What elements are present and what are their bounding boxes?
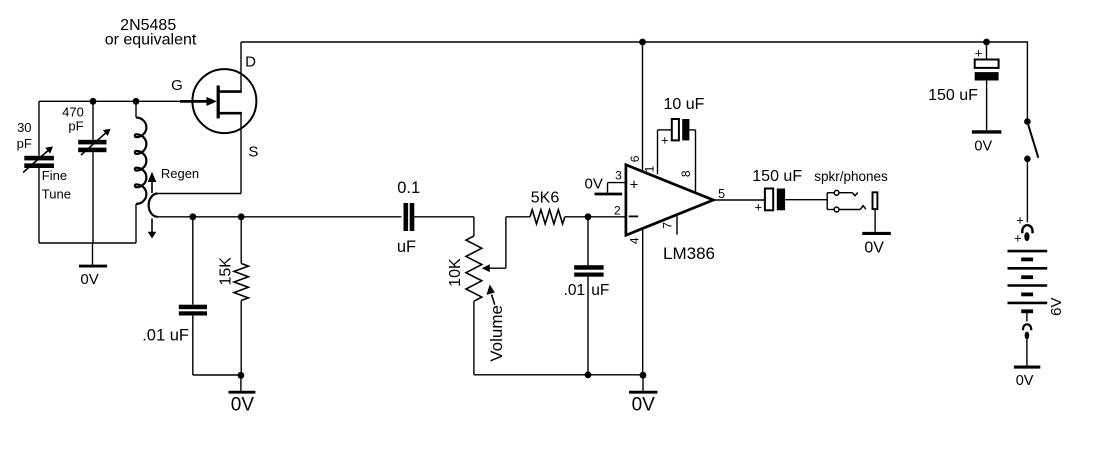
svg-text:.01: .01 <box>564 282 586 299</box>
svg-text:spkr/phones: spkr/phones <box>814 169 888 184</box>
svg-text:pF: pF <box>68 118 83 133</box>
svg-text:7: 7 <box>661 222 675 229</box>
svg-text:0V: 0V <box>585 175 603 192</box>
svg-text:4: 4 <box>628 237 642 244</box>
svg-text:pF: pF <box>17 136 32 151</box>
svg-text:+: + <box>1016 212 1024 227</box>
svg-text:Volume: Volume <box>487 305 506 362</box>
svg-text:+: + <box>1014 230 1022 245</box>
svg-text:Tune: Tune <box>42 187 71 202</box>
svg-text:Fine: Fine <box>42 168 67 183</box>
svg-text:+: + <box>630 176 639 193</box>
svg-text:2: 2 <box>614 203 621 217</box>
svg-text:150 uF: 150 uF <box>928 87 978 104</box>
svg-text:+: + <box>661 133 669 148</box>
svg-text:5K6: 5K6 <box>531 189 560 206</box>
svg-text:10 uF: 10 uF <box>664 96 705 113</box>
svg-text:0V: 0V <box>231 395 255 416</box>
svg-text:5: 5 <box>718 187 725 201</box>
svg-text:or equivalent: or equivalent <box>105 31 197 48</box>
svg-text:1: 1 <box>643 165 657 172</box>
svg-text:0V: 0V <box>80 271 98 288</box>
svg-text:10K: 10K <box>447 258 464 287</box>
svg-text:D: D <box>245 53 256 70</box>
svg-text:LM386: LM386 <box>663 244 715 263</box>
svg-text:6: 6 <box>628 155 642 162</box>
svg-text:0.1: 0.1 <box>397 179 420 197</box>
svg-text:15K: 15K <box>218 257 235 286</box>
svg-text:3: 3 <box>615 169 622 183</box>
svg-text:0V: 0V <box>1016 373 1034 389</box>
svg-text:0V: 0V <box>632 395 656 416</box>
svg-text:8: 8 <box>679 170 693 177</box>
svg-text:.01 uF: .01 uF <box>142 327 189 345</box>
svg-text:6V: 6V <box>1048 298 1065 316</box>
svg-text:30: 30 <box>17 120 31 135</box>
svg-text:+: + <box>975 46 983 61</box>
svg-text:S: S <box>248 143 258 160</box>
svg-text:G: G <box>171 77 183 94</box>
svg-text:Regen: Regen <box>161 166 199 181</box>
svg-text:0V: 0V <box>864 239 884 256</box>
svg-text:0V: 0V <box>974 138 992 154</box>
svg-text:uF: uF <box>397 238 416 256</box>
svg-text:470: 470 <box>62 105 84 120</box>
svg-text:150 uF: 150 uF <box>752 168 802 185</box>
svg-text:+: + <box>755 199 763 214</box>
svg-text:uF: uF <box>591 282 609 299</box>
